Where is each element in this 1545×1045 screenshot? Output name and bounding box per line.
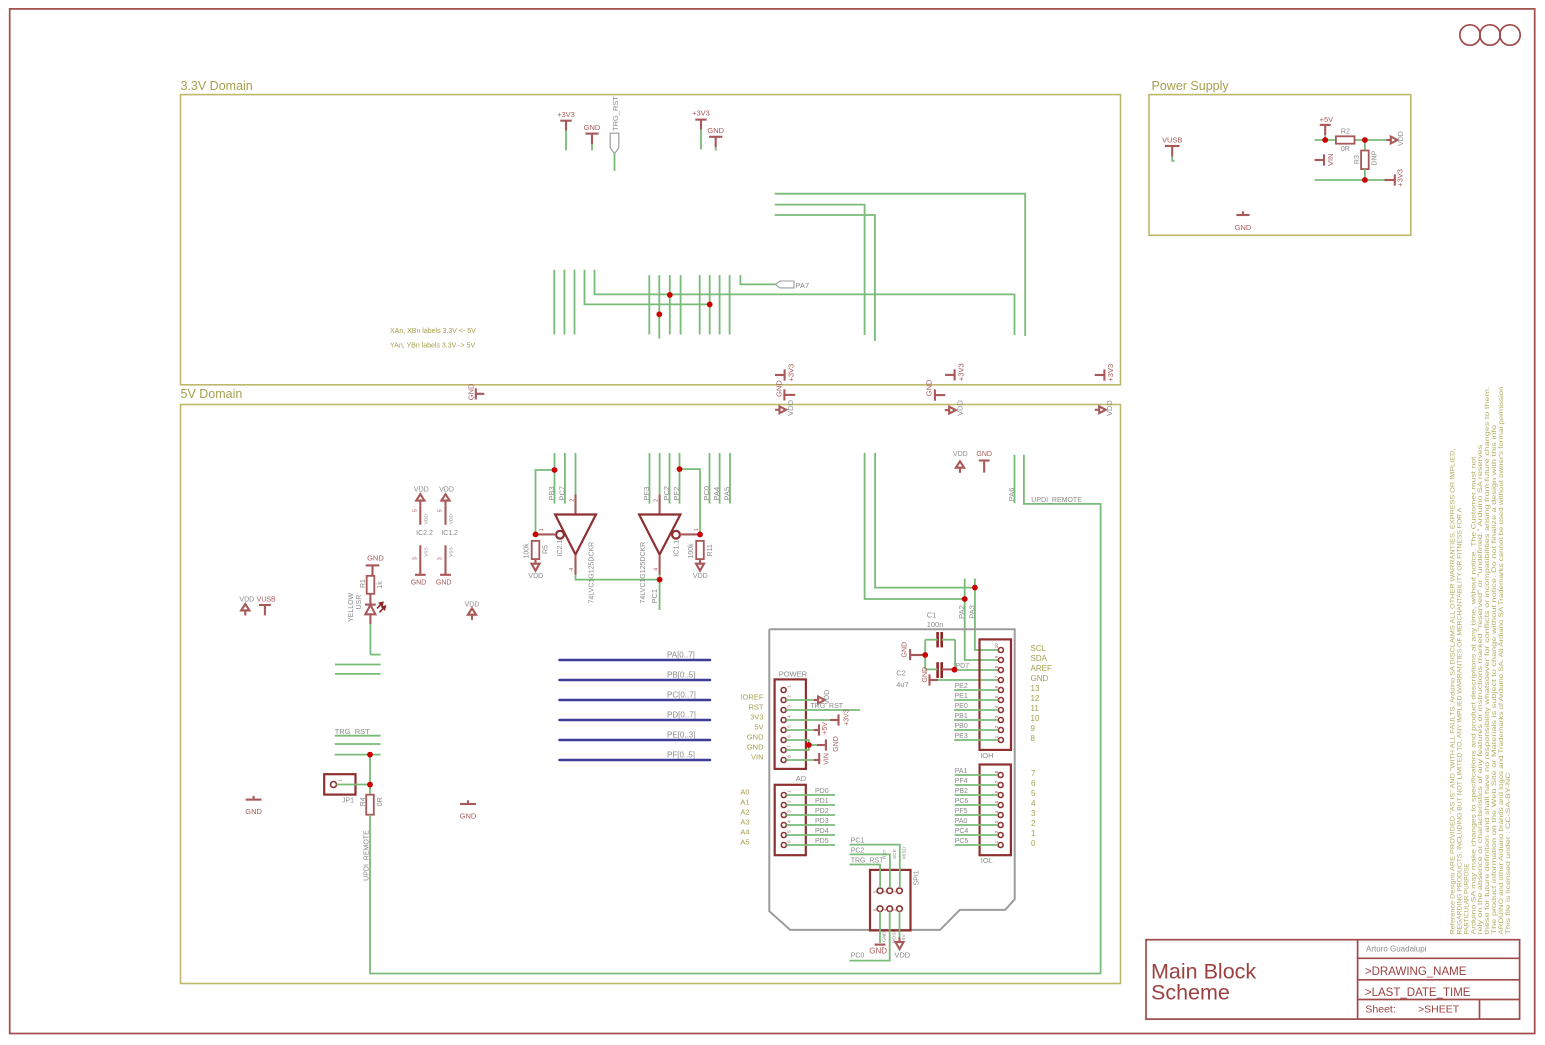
svg-text:A3: A3	[740, 818, 749, 827]
svg-text:74LVC1G125DCKR: 74LVC1G125DCKR	[589, 542, 596, 604]
svg-text:5: 5	[413, 509, 419, 512]
svg-text:4: 4	[1031, 799, 1036, 808]
wire AD pin2 net PD1	[787, 798, 836, 805]
svg-text:TRG_RST: TRG_RST	[335, 727, 370, 736]
svg-text:R3: R3	[1354, 155, 1361, 164]
svg-text:PB[0..5]: PB[0..5]	[667, 670, 695, 679]
svg-text:2: 2	[994, 830, 999, 833]
svg-text:GND: GND	[869, 947, 887, 956]
ground GND near PA6	[976, 451, 992, 473]
svg-text:2: 2	[654, 499, 660, 502]
svg-text:PC4: PC4	[955, 828, 969, 835]
wire PA6 stub	[1007, 455, 1016, 503]
svg-text:+5V: +5V	[822, 722, 829, 735]
resistor R1 1k	[360, 576, 384, 594]
svg-text:SPI1: SPI1	[913, 870, 920, 885]
node junction +3V3 rail	[1362, 177, 1368, 183]
svg-text:PE2: PE2	[955, 683, 968, 690]
5V Domain box	[181, 387, 1121, 984]
svg-text:SCL: SCL	[1031, 644, 1047, 653]
node junction JP1	[367, 782, 373, 788]
node junction TRG stub	[367, 752, 373, 758]
svg-text:VDD: VDD	[693, 573, 708, 580]
node junction PA3	[972, 585, 978, 591]
wire bus-B horizontal	[775, 205, 865, 335]
node junction R11 top	[697, 532, 703, 538]
svg-text:PC7: PC7	[557, 486, 566, 501]
svg-text:PA5: PA5	[723, 487, 732, 501]
svg-text:GND: GND	[460, 812, 477, 821]
svg-text:4: 4	[787, 820, 792, 823]
svg-text:VIN: VIN	[751, 753, 764, 762]
wire AD pin3 net PD2	[787, 808, 836, 815]
svg-text:UPDI_REMOTE: UPDI_REMOTE	[1031, 497, 1082, 504]
svg-text:PF4: PF4	[955, 778, 968, 785]
svg-text:VDD: VDD	[239, 597, 254, 604]
svg-text:PF5: PF5	[955, 808, 968, 815]
3.3V Domain box	[181, 79, 1121, 385]
svg-text:UPDI_REMOTE: UPDI_REMOTE	[364, 830, 371, 881]
svg-text:SCK: SCK	[892, 848, 898, 859]
svg-text:TRG_RST: TRG_RST	[611, 96, 620, 131]
node junction end of short horizontal	[707, 302, 713, 308]
svg-text:PA3: PA3	[967, 605, 976, 619]
net TRG_RST stub	[335, 727, 381, 736]
wire AD pin1 net PD0	[787, 788, 836, 795]
svg-text:+3V3: +3V3	[1106, 364, 1115, 382]
svg-text:A0: A0	[740, 788, 749, 797]
svg-text:IC1.1: IC1.1	[673, 540, 680, 557]
op-amp buffer IC2.1 74LVC1G125DCKR	[536, 515, 597, 604]
svg-text:PD7: PD7	[956, 663, 970, 670]
svg-text:GND: GND	[976, 451, 992, 458]
ground GND at border x784	[775, 380, 796, 401]
svg-text:JP1: JP1	[342, 798, 354, 805]
svg-text:+3V3: +3V3	[787, 364, 796, 382]
svg-text:A1: A1	[740, 798, 749, 807]
svg-text:6: 6	[994, 685, 999, 688]
wire JP1 to R4 vertical	[369, 755, 371, 795]
svg-text:IC2.2: IC2.2	[416, 530, 433, 537]
svg-text:100k: 100k	[688, 543, 695, 559]
ground GND to IOH pin7	[922, 667, 998, 686]
wire bus-C horizontal	[775, 215, 875, 341]
bus PB[0..5]	[560, 670, 711, 680]
wire IOH net PE0	[954, 703, 998, 710]
svg-text:PE0: PE0	[955, 703, 968, 710]
resistor R5 100k	[523, 541, 549, 559]
supply +3V3 second	[692, 109, 710, 150]
svg-text:1: 1	[1031, 829, 1036, 838]
svg-text:+3V3: +3V3	[844, 709, 851, 726]
power pins IC2.2 vdd/vss	[411, 487, 433, 587]
svg-text:PC0: PC0	[851, 953, 865, 960]
svg-text:IOH: IOH	[980, 751, 993, 760]
svg-text:0: 0	[1031, 839, 1036, 848]
svg-text:1: 1	[994, 840, 999, 843]
svg-text:Power Supply: Power Supply	[1152, 79, 1230, 93]
wire PD7 to IOH pin8	[955, 669, 999, 671]
svg-text:5: 5	[994, 800, 999, 803]
arduino shield outline	[769, 629, 1014, 930]
svg-text:PF2: PF2	[672, 487, 681, 501]
power VDD below R11	[693, 559, 708, 580]
svg-text:PA7: PA7	[796, 281, 810, 290]
power VDD below R5	[528, 559, 543, 580]
node junction lower	[656, 311, 662, 317]
svg-text:+3V3: +3V3	[1396, 169, 1405, 187]
svg-text:100n: 100n	[927, 620, 944, 629]
ground GND at border x470	[467, 383, 485, 400]
wire IOL net PF5	[955, 808, 998, 815]
svg-text:GND: GND	[411, 579, 427, 586]
wire input pin2 IC2.1	[570, 453, 576, 515]
svg-text:VDD: VDD	[1105, 400, 1114, 416]
power VDD arrow near PA6	[953, 451, 968, 473]
wire PC1 to SPI1 MISO	[850, 838, 908, 888]
net UPDI_REMOTE long wire	[364, 455, 1101, 974]
svg-text:ARDUINO and other Arduino bran: ARDUINO and other Arduino brands and log…	[1499, 387, 1505, 935]
svg-text:A4: A4	[740, 828, 749, 837]
supply +3V3 power box	[1385, 169, 1405, 187]
svg-text:VDD: VDD	[786, 399, 795, 415]
svg-text:GND: GND	[584, 123, 601, 132]
wire IOH net PE1	[954, 693, 998, 700]
svg-text:10: 10	[1031, 714, 1040, 723]
svg-text:2: 2	[570, 499, 576, 502]
supply VUSB power box	[1162, 136, 1182, 161]
Power Supply box	[1149, 79, 1411, 235]
wire output pin4 IC1.1 net PC1	[650, 555, 660, 611]
svg-text:8: 8	[994, 770, 999, 773]
svg-text:6: 6	[786, 735, 791, 738]
disclaimer rotated text	[1451, 386, 1512, 934]
svg-text:GND: GND	[436, 579, 452, 586]
ground GND power box	[1235, 211, 1252, 232]
wire AD pin4 net PD3	[787, 818, 836, 825]
svg-text:VUSB: VUSB	[1162, 136, 1182, 145]
svg-text:3: 3	[1031, 809, 1036, 818]
svg-text:This file is licensed under :: This file is licensed under : CC-SA-BY-N…	[1506, 772, 1512, 935]
wire mid horizontal long	[595, 270, 1015, 335]
svg-text:PA[0..7]: PA[0..7]	[667, 650, 695, 659]
power arrow VDD at border x784	[775, 399, 795, 415]
svg-text:PE3: PE3	[955, 733, 968, 740]
svg-text:PA2: PA2	[957, 605, 966, 619]
svg-text:5: 5	[438, 509, 444, 512]
power VDD and supply VUSB pair	[239, 597, 276, 616]
svg-text:IOREF: IOREF	[741, 693, 764, 702]
wire IOL net PA1	[955, 768, 998, 775]
svg-text:10: 10	[994, 643, 999, 649]
resistor R2 0R	[1336, 129, 1355, 153]
svg-text:2: 2	[994, 725, 999, 728]
svg-text:VDD: VDD	[956, 399, 965, 415]
svg-text:IC1.2: IC1.2	[441, 530, 458, 537]
ground GND top-left	[584, 123, 601, 151]
svg-text:PC2: PC2	[662, 486, 671, 501]
wire IOL net PA0	[955, 818, 998, 825]
wire IOL net PC6	[955, 798, 998, 805]
wire IOH net PE2	[954, 683, 998, 690]
wire PA4 vertical	[719, 453, 721, 504]
svg-text:4: 4	[994, 810, 999, 813]
connector IOL	[980, 765, 1011, 865]
svg-text:3V3: 3V3	[750, 713, 763, 722]
svg-text:PD4: PD4	[815, 828, 829, 835]
node junction PD7	[952, 667, 958, 673]
power arrow VDD at border x954	[945, 399, 965, 415]
wire PC7 vertical	[564, 453, 566, 504]
power pins IC1.2 vdd/vss	[436, 487, 458, 587]
svg-text:Arturo Guadalupi: Arturo Guadalupi	[1366, 945, 1427, 954]
svg-text:PC0: PC0	[702, 486, 711, 501]
svg-text:GND: GND	[245, 807, 262, 816]
svg-text:REGARDING PRODUCTS, INCLUDING: REGARDING PRODUCTS, INCLUDING BUT NOT LI…	[1458, 508, 1464, 935]
svg-text:1: 1	[787, 790, 792, 793]
svg-text:+5V: +5V	[1320, 115, 1334, 124]
svg-text:GND: GND	[902, 642, 909, 658]
svg-text:8: 8	[994, 665, 999, 668]
svg-text:VIN: VIN	[1326, 153, 1335, 166]
svg-text:PA0: PA0	[955, 818, 968, 825]
svg-text:POWER: POWER	[779, 669, 808, 678]
wire IOH net PB0	[954, 723, 998, 730]
svg-text:7: 7	[1031, 769, 1036, 778]
bus PF[0..5]	[560, 750, 711, 760]
svg-text:1: 1	[338, 779, 343, 782]
svg-text:PD0: PD0	[815, 788, 829, 795]
flag TRG_RST	[610, 96, 620, 171]
supply +5V power box	[1320, 115, 1334, 140]
svg-text:PB1: PB1	[955, 713, 968, 720]
svg-text:PD[0..7]: PD[0..7]	[667, 710, 696, 719]
svg-text:3: 3	[994, 820, 999, 823]
svg-text:8: 8	[1031, 734, 1036, 743]
resistor R11 100k	[688, 541, 714, 559]
node junction +5V	[1322, 137, 1328, 143]
svg-text:VSS: VSS	[449, 547, 455, 557]
wire PF3 vertical	[649, 453, 651, 504]
connector IOH	[980, 639, 1012, 760]
ground GND right floating	[460, 800, 477, 820]
ground GND at border x935	[924, 379, 945, 401]
svg-text:PC6: PC6	[955, 798, 969, 805]
wire feed left to PA2	[865, 453, 965, 599]
wire PA3 vertical to IOH pin10	[967, 579, 998, 651]
wire +5V rail	[1315, 139, 1387, 141]
svg-text:>SHEET: >SHEET	[1418, 1003, 1460, 1015]
svg-text:7: 7	[786, 745, 791, 748]
svg-text:VDD: VDD	[439, 487, 454, 494]
svg-text:GND: GND	[1235, 223, 1252, 232]
wire IOH net PB1	[954, 713, 998, 720]
connector POWER	[775, 669, 808, 769]
wire PC2 to SPI1 SCK	[850, 848, 898, 888]
svg-text:C1: C1	[927, 611, 937, 620]
svg-text:YELLOW: YELLOW	[348, 592, 355, 622]
connector SPI1	[870, 870, 920, 931]
svg-text:74LVC1G125DCKR: 74LVC1G125DCKR	[640, 542, 647, 604]
wire IOL net PC4	[955, 828, 998, 835]
svg-text:PC5: PC5	[955, 838, 969, 845]
supply VIN power box	[1315, 153, 1336, 166]
svg-text:Sheet:: Sheet:	[1365, 1003, 1395, 1015]
node junction PC1	[657, 577, 663, 583]
wire POWER pins6-7 GND	[786, 736, 840, 752]
svg-text:PD1: PD1	[815, 798, 829, 805]
node junction POWER gnd	[806, 742, 812, 748]
wire gnd rail caps	[924, 640, 926, 670]
node junction R2 out	[1362, 137, 1368, 143]
wire IOL net PF4	[955, 778, 998, 785]
svg-text:Reference Designs ARE PROVIDED: Reference Designs ARE PROVIDED "AS IS" A…	[1451, 448, 1457, 934]
wire vertical stubs group 3	[700, 275, 730, 334]
wire AD pin6 net PD5	[787, 838, 836, 845]
svg-text:MISO: MISO	[902, 846, 908, 859]
svg-text:PB0: PB0	[955, 723, 968, 730]
svg-text:4: 4	[786, 715, 791, 718]
svg-text:RST: RST	[749, 703, 764, 712]
ground GND caps	[902, 642, 926, 660]
svg-text:3: 3	[413, 557, 419, 560]
wire PC2 vertical	[669, 453, 671, 504]
power arrow VDD power box	[1386, 131, 1405, 146]
svg-text:C2: C2	[896, 669, 906, 678]
jumper JP1	[324, 774, 370, 804]
svg-text:YAn, YBn labels 3.3V -> 5V: YAn, YBn labels 3.3V -> 5V	[390, 343, 475, 350]
svg-text:4: 4	[569, 568, 575, 571]
svg-text:0R: 0R	[1341, 146, 1350, 153]
svg-text:IOL: IOL	[981, 856, 993, 865]
svg-text:12: 12	[1031, 694, 1040, 703]
wire POWER pin3 TRG_RST	[786, 703, 860, 710]
svg-text:PD2: PD2	[815, 808, 829, 815]
svg-text:VDD: VDD	[894, 951, 910, 960]
svg-text:AREF: AREF	[1031, 664, 1052, 673]
svg-text:VDD: VDD	[953, 451, 968, 458]
wire stub 3 with junction	[335, 754, 381, 756]
svg-text:VDD: VDD	[528, 573, 543, 580]
svg-text:Arduino SA may make changes to: Arduino SA may make changes to specifica…	[1471, 456, 1477, 934]
svg-text:+3V3: +3V3	[557, 110, 575, 119]
supply +3V3 at border x1104	[1095, 364, 1115, 382]
svg-text:5: 5	[786, 725, 791, 728]
svg-text:>LAST_DATE_TIME: >LAST_DATE_TIME	[1365, 987, 1471, 999]
power arrow VDD at border x1104	[1095, 400, 1114, 416]
svg-text:VDD: VDD	[423, 514, 429, 525]
svg-text:GND: GND	[833, 736, 840, 752]
wire input pin2 IC1.1	[654, 453, 660, 515]
resistor R4 0R	[360, 795, 384, 815]
node junction PA2	[962, 596, 968, 602]
wire feed right to PA3	[875, 453, 975, 588]
svg-text:3: 3	[786, 705, 791, 708]
svg-text:R11: R11	[707, 544, 714, 556]
title block	[1146, 940, 1520, 1019]
supply +3V3 at border x784	[775, 364, 796, 382]
LED USR YELLOW	[348, 592, 385, 654]
svg-text:R5: R5	[542, 545, 549, 554]
svg-text:5V: 5V	[754, 723, 763, 732]
wire bus-A horizontal to right column	[775, 194, 1025, 336]
svg-text:PA6: PA6	[1007, 488, 1016, 502]
svg-text:PE[0..3]: PE[0..3]	[667, 730, 695, 739]
wire PB3 vertical	[554, 453, 556, 504]
resistor R3 DNP	[1354, 140, 1378, 180]
bus PA[0..7]	[560, 650, 711, 660]
svg-text:3.3V Domain: 3.3V Domain	[181, 79, 253, 93]
svg-text:1: 1	[694, 528, 700, 531]
wire IOL net PC5	[955, 838, 998, 845]
svg-text:XAn, XBn labels 3.3V <- 5V: XAn, XBn labels 3.3V <- 5V	[390, 328, 476, 335]
svg-text:PE1: PE1	[955, 693, 968, 700]
svg-text:A5: A5	[740, 838, 749, 847]
svg-text:DNP: DNP	[1371, 150, 1378, 165]
svg-text:100k: 100k	[523, 543, 530, 559]
svg-text:VUSB: VUSB	[257, 597, 276, 604]
svg-text:GND: GND	[775, 380, 784, 397]
wire PA2 vertical to IOH pin9	[957, 579, 998, 661]
wire SPI1 pin2 to VDD	[894, 912, 910, 960]
svg-text:VDD: VDD	[414, 487, 429, 494]
wire PC0 vertical	[709, 453, 711, 504]
svg-text:R4: R4	[360, 797, 367, 806]
svg-text:R2: R2	[1341, 129, 1350, 136]
svg-text:6: 6	[1031, 779, 1036, 788]
svg-text:1: 1	[539, 528, 545, 531]
svg-text:8: 8	[786, 755, 791, 758]
svg-text:RST: RST	[882, 849, 888, 859]
wire OE pulldown IC2.1	[536, 470, 555, 534]
svg-text:PD3: PD3	[815, 818, 829, 825]
ground GND above R1	[366, 554, 385, 576]
wire IOH net PE3	[954, 733, 998, 740]
wire OE pulldown IC1.1	[680, 469, 701, 534]
svg-text:6: 6	[994, 790, 999, 793]
svg-text:1k: 1k	[377, 581, 384, 589]
wire +3V3 rail	[1315, 179, 1385, 181]
svg-text:PC[0..7]: PC[0..7]	[667, 690, 696, 699]
svg-text:PD5: PD5	[815, 838, 829, 845]
svg-text:0R: 0R	[377, 797, 384, 806]
svg-text:GND: GND	[707, 126, 724, 135]
svg-text:R1: R1	[360, 579, 367, 588]
svg-text:GND: GND	[747, 733, 764, 742]
capacitor C2 4u7	[896, 662, 954, 689]
svg-text:VDD: VDD	[1398, 131, 1405, 146]
svg-text:3: 3	[994, 715, 999, 718]
wire stub pair below LED	[335, 665, 381, 674]
svg-text:PARTICULAR PURPOSE: PARTICULAR PURPOSE	[1464, 863, 1470, 934]
wire mid horizontal short	[585, 270, 710, 305]
svg-text:PA1: PA1	[955, 768, 968, 775]
wire vertical stubs group 2	[649, 275, 680, 338]
svg-text:6: 6	[787, 840, 792, 843]
svg-text:3: 3	[787, 810, 792, 813]
wire output pin4 IC2.1	[569, 555, 659, 580]
node junction R5 top	[533, 532, 539, 538]
wire stub 2	[335, 743, 381, 745]
wire SPI1 pin4 MOSI to PC0	[850, 912, 898, 961]
power VDD lone arrow	[465, 601, 480, 620]
svg-text:9: 9	[1031, 724, 1036, 733]
svg-text:IC2.1: IC2.1	[557, 540, 564, 557]
svg-text:AD: AD	[796, 774, 807, 783]
svg-text:+3V3: +3V3	[956, 363, 965, 381]
svg-text:these for future definition an: these for future definition and shall ha…	[1485, 386, 1491, 934]
svg-text:Scheme: Scheme	[1151, 981, 1230, 1005]
